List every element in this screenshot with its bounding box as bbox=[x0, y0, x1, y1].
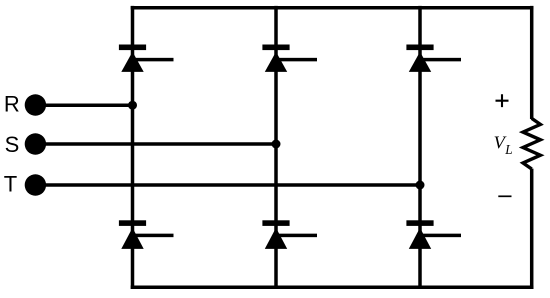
svg-text:T: T bbox=[4, 171, 17, 196]
svg-text:R: R bbox=[4, 92, 20, 117]
terminal T bbox=[25, 174, 46, 195]
node phase S junction bbox=[272, 140, 281, 149]
thyristor Q3 (top, leg 2) bbox=[262, 45, 317, 72]
wire bottom rail (negative DC bus) bbox=[131, 286, 534, 290]
wire right lower (load to bottom rail) bbox=[530, 169, 534, 289]
resistor VL load bbox=[523, 118, 540, 169]
label + (load polarity) bbox=[496, 94, 509, 107]
label - (load polarity) bbox=[498, 195, 511, 197]
thyristor Q2 (bottom, leg 3) bbox=[406, 220, 461, 249]
thyristor Q4 (bottom, leg 1) bbox=[119, 220, 174, 249]
wire leg 1 (phase R branch) bbox=[131, 6, 135, 289]
wire leg 3 (phase T branch) bbox=[418, 6, 422, 289]
node phase R junction bbox=[128, 101, 137, 110]
wire phase T bbox=[40, 183, 420, 187]
thyristor Q5 (top, leg 3) bbox=[406, 45, 461, 72]
thyristor Q1 (top, leg 1) bbox=[119, 45, 174, 72]
wire phase R bbox=[40, 103, 134, 107]
label VL bbox=[494, 133, 513, 157]
wire leg 2 (phase S branch) bbox=[274, 6, 278, 289]
terminal S bbox=[25, 133, 46, 154]
wire right upper (top rail to load) bbox=[530, 6, 534, 119]
wire phase S bbox=[40, 142, 276, 146]
svg-text:L: L bbox=[504, 142, 512, 157]
node phase T junction bbox=[416, 181, 425, 190]
terminal R bbox=[25, 94, 46, 115]
svg-text:S: S bbox=[5, 132, 20, 157]
wire top rail (positive DC bus) bbox=[131, 6, 534, 10]
thyristor Q6 (bottom, leg 2) bbox=[262, 220, 317, 249]
